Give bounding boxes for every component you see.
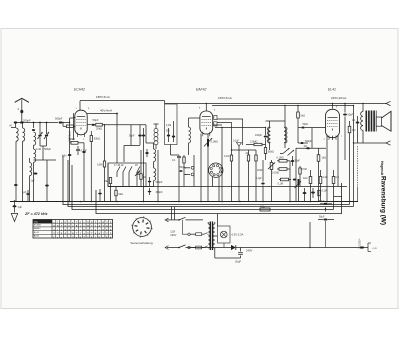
- label 0,1M h1: [277, 157, 284, 160]
- bus return 2: [68, 160, 354, 207]
- fuse bottom: [188, 246, 208, 249]
- label 50pF det: [303, 123, 309, 126]
- speaker frame: [375, 111, 377, 132]
- svg-text:1µF: 1µF: [18, 205, 23, 209]
- label 50pF: [93, 118, 99, 122]
- svg-text:1kΩ: 1kΩ: [303, 177, 308, 180]
- label pin digits ECH42: [76, 108, 91, 141]
- svg-text:EL41: EL41: [34, 232, 40, 234]
- svg-text:50pF: 50pF: [295, 160, 301, 163]
- resistor 0,5M: [103, 125, 105, 201]
- svg-text:1µF: 1µF: [22, 191, 27, 194]
- svg-text:AZ41: AZ41: [34, 235, 40, 238]
- resistor 0,2 EL41: [348, 121, 351, 205]
- resistor 5k det top: [297, 105, 300, 125]
- resistor 40ohm bus: [260, 205, 270, 211]
- svg-text:6,3V 0,3A: 6,3V 0,3A: [232, 233, 244, 237]
- svg-text:50pF: 50pF: [303, 123, 309, 126]
- label 500pF grid: [55, 117, 63, 121]
- label 50k det: [268, 151, 274, 154]
- capacitor in AVC box b: [172, 121, 175, 142]
- wire AVC down: [171, 145, 180, 156]
- resistor 0,5M det: [299, 166, 301, 187]
- svg-text:Serienschaltung: Serienschaltung: [130, 241, 152, 245]
- coil L2a: [34, 132, 36, 145]
- svg-text:1MΩ: 1MΩ: [257, 169, 262, 172]
- wire v146: [145, 125, 147, 143]
- switch contact 20: [137, 167, 140, 178]
- phono jack lower: [185, 173, 194, 176]
- speaker cone: [382, 111, 392, 131]
- label pin digits EAF42: [199, 108, 216, 112]
- svg-text:245V,20mA: 245V,20mA: [331, 96, 346, 100]
- wire grid link: [70, 113, 76, 140]
- coil L2b: [34, 149, 36, 162]
- capacitor 0,1uF tube left: [76, 146, 86, 155]
- choke connector: [310, 243, 378, 252]
- wire det corner B: [217, 123, 232, 145]
- label 40k: [104, 180, 109, 183]
- svg-text:40V,4mA: 40V,4mA: [100, 109, 112, 113]
- svg-text:EAF42: EAF42: [196, 88, 206, 92]
- svg-text:M: M: [10, 124, 12, 128]
- label 165V,5mA: [218, 96, 232, 100]
- capacitor in AVC box a: [167, 128, 170, 142]
- svg-text:ZF = 472 kHz: ZF = 472 kHz: [24, 212, 48, 216]
- label 110/220V: [170, 230, 176, 238]
- wire switch verticals: [123, 177, 137, 187]
- resistor 25k osc: [140, 150, 142, 187]
- output transformer core: [366, 111, 375, 132]
- wire L1a to bus: [15, 141, 17, 201]
- mains lead top: [165, 218, 180, 222]
- wire antenna down 2: [22, 123, 24, 129]
- IF1 winding: [154, 128, 158, 144]
- capacitor 50pF anode: [87, 124, 95, 126]
- resistor 1,2k right: [319, 170, 322, 201]
- resistor 0,1M det h2: [277, 168, 290, 171]
- label 2k: [143, 176, 146, 179]
- capacitor IF1 a: [138, 135, 141, 137]
- terminal M: [10, 123, 16, 129]
- svg-text:0,1µF: 0,1µF: [256, 177, 263, 180]
- label 50uF upper: [319, 200, 325, 203]
- wire det row: [231, 149, 256, 150]
- capacitor 0,1uF right: [303, 188, 315, 201]
- capacitor 50pF det: [298, 127, 312, 129]
- label 1k EL41: [322, 157, 327, 160]
- capacitor tone: [293, 179, 296, 181]
- wire HT top line2: [212, 105, 354, 107]
- wire ECH42 anode up: [79, 101, 81, 111]
- tube EAF42: [200, 111, 213, 136]
- label 5k osc: [119, 193, 124, 196]
- wire top row: [34, 122, 57, 124]
- wire det corner A: [217, 119, 243, 145]
- svg-text:0,1MΩ: 0,1MΩ: [272, 172, 279, 175]
- output transformer primary: [361, 103, 364, 143]
- band switch box: [108, 163, 146, 187]
- resistor grid stopper: [62, 122, 75, 128]
- label pin digits EL41: [324, 107, 344, 142]
- coil osc bottom: [154, 168, 156, 181]
- bus return 3: [72, 165, 342, 210]
- capacitor arrow lower: [325, 208, 327, 212]
- mains pole join: [182, 220, 187, 234]
- resistor 1k EL41: [317, 148, 320, 201]
- label 0,1M v: [278, 183, 283, 186]
- label 1,2k right: [323, 176, 328, 179]
- svg-text:50pF: 50pF: [348, 114, 354, 117]
- svg-text:2,5MΩ: 2,5MΩ: [250, 141, 258, 144]
- label ZF: [24, 212, 48, 216]
- IF2 coil right: [284, 121, 287, 148]
- resistor det c: [246, 150, 250, 201]
- coil osc top: [154, 149, 156, 162]
- label 30k: [94, 137, 100, 141]
- lamp box: [215, 214, 230, 248]
- resistor osc 40k: [109, 177, 111, 201]
- wire mid verticals: [194, 155, 208, 201]
- label 245V,20mA: [331, 96, 346, 100]
- label 4-46: [36, 148, 42, 151]
- antenna: [15, 98, 29, 122]
- wire L1b down: [22, 141, 24, 201]
- wire EAF42 anode up: [205, 104, 207, 112]
- wire EAF42 grid left: [189, 117, 201, 119]
- capacitor L2 top: [32, 129, 35, 131]
- diode contact 2: [288, 150, 295, 156]
- label 0,2 right: [336, 176, 340, 179]
- wire band link: [124, 125, 140, 162]
- label 50pF EL41: [348, 114, 354, 117]
- capacitor 1,5nF: [62, 154, 71, 158]
- label 5k top: [301, 115, 306, 118]
- capacitor 20uF: [238, 248, 243, 259]
- svg-text:ECH42: ECH42: [34, 224, 42, 226]
- label 300pF osc: [156, 191, 164, 194]
- svg-text:220V: 220V: [170, 233, 176, 237]
- voltage table: [33, 220, 113, 240]
- wire osc right drop: [157, 150, 159, 201]
- svg-text:100pF: 100pF: [255, 134, 263, 137]
- svg-text:20µF: 20µF: [235, 260, 242, 264]
- wire det bus drops: [290, 158, 296, 201]
- svg-text:240V: 240V: [246, 249, 252, 253]
- svg-text:0,1MΩ: 0,1MΩ: [211, 141, 219, 144]
- capacitor 0,1uF det left: [261, 160, 264, 201]
- svg-text:0,1: 0,1: [352, 119, 356, 122]
- brand text vertical: [380, 161, 384, 175]
- tone pot: [295, 179, 302, 201]
- svg-text:4-46: 4-46: [36, 148, 42, 151]
- wire HT to right: [172, 207, 311, 249]
- label 500pF osc: [156, 181, 164, 184]
- chassis bus: [10, 201, 358, 203]
- label 2,5M: [250, 141, 258, 144]
- wire HT top line: [165, 103, 387, 104]
- coil L3: [30, 158, 32, 201]
- capacitor 50pF det2: [291, 156, 294, 166]
- wire det mid drop: [297, 125, 299, 143]
- resistor det d: [255, 150, 257, 201]
- wire rect loop: [215, 248, 241, 259]
- box AVC: [165, 104, 178, 145]
- label 185V vertical: [68, 131, 71, 142]
- svg-text:50kΩ: 50kΩ: [268, 151, 274, 154]
- trimmer C3 4-46pF: [38, 123, 43, 147]
- svg-text:2M: 2M: [246, 153, 249, 155]
- label 0,1 speaker: [352, 119, 356, 122]
- label contacts: [114, 164, 138, 167]
- svg-text:30kΩ: 30kΩ: [94, 137, 100, 141]
- capacitor 0,1 speaker: [356, 116, 360, 143]
- resistor osc 5k: [115, 187, 117, 202]
- label ECH42: [74, 88, 85, 92]
- svg-text:165V,5mA: 165V,5mA: [218, 96, 232, 100]
- resistor 0,1M right: [318, 190, 320, 196]
- wire screen drop: [116, 114, 118, 164]
- wire osc bottom: [108, 186, 154, 188]
- label 0,1uF det left: [256, 177, 263, 180]
- label 0,1uF mid: [172, 159, 176, 162]
- capacitor 300pF osc: [148, 188, 152, 195]
- capacitor IF1 c: [145, 149, 148, 157]
- fuse top: [188, 233, 209, 236]
- label 500pF det: [305, 140, 313, 143]
- wire 185V line: [80, 100, 165, 102]
- wire AVC vertical: [164, 101, 166, 104]
- diode contact 1: [283, 148, 290, 154]
- svg-text:0,2: 0,2: [336, 176, 340, 179]
- heater line: [146, 186, 347, 188]
- switch contact 19: [129, 167, 132, 178]
- speaker magnet: [376, 117, 381, 126]
- capacitor 100pF IF2: [264, 127, 268, 145]
- wire speaker bottom: [354, 142, 387, 144]
- capacitor 0,1uF mid: [177, 155, 181, 201]
- IF2 top bar: [266, 105, 286, 121]
- mains switch blade: [179, 217, 203, 220]
- svg-text:50µF: 50µF: [319, 216, 325, 219]
- capacitor bus area b: [98, 189, 102, 201]
- trimmer C4 500pF: [44, 123, 49, 147]
- wire v108: [107, 163, 109, 187]
- transformer primary winding: [208, 222, 210, 248]
- coil L1b: [23, 128, 25, 141]
- svg-text:0,5M: 0,5M: [302, 169, 307, 171]
- resistor 1k right: [309, 170, 312, 201]
- svg-text:5kΩ: 5kΩ: [119, 193, 124, 196]
- svg-text:0,1M: 0,1M: [322, 190, 327, 193]
- potentiometer 0,1M EAF: [204, 134, 212, 155]
- padder trimmer: [135, 171, 140, 177]
- wire trimmer bottoms: [34, 146, 57, 160]
- label 240V: [246, 249, 252, 253]
- svg-text:0,1M: 0,1M: [224, 155, 229, 158]
- label 0,1uF a: [81, 150, 88, 153]
- svg-text:0,1: 0,1: [172, 159, 176, 162]
- ground: [11, 214, 17, 222]
- tube EL41: [326, 109, 340, 140]
- capacitor 1uF L3: [31, 173, 38, 183]
- label 20uF: [235, 260, 242, 264]
- EAF42 pin contacts: [214, 115, 217, 126]
- svg-text:20kΩ: 20kΩ: [96, 127, 102, 131]
- wire grid line mid: [215, 127, 266, 129]
- transformer core: [210, 222, 214, 251]
- svg-text:0,1µF: 0,1µF: [233, 141, 240, 143]
- IF1 winding wires: [154, 124, 159, 149]
- resistor mid 1: [183, 155, 185, 187]
- svg-text:ECH42: ECH42: [74, 88, 85, 92]
- wire grid feed down: [69, 118, 70, 201]
- label 40V,4mA: [100, 109, 112, 113]
- label 185V,5mA: [96, 95, 110, 99]
- resistor 0,1M det h1: [277, 160, 290, 163]
- terminal bottom right: [386, 141, 391, 145]
- wire osc coil link: [146, 143, 154, 187]
- wire EL41 anode up: [332, 103, 333, 109]
- capacitor 1uF ground: [13, 200, 17, 212]
- svg-text:Volt: Volt: [34, 220, 38, 223]
- bus return 4: [96, 183, 342, 214]
- node antenna junction: [14, 121, 34, 123]
- svg-text:200pF: 200pF: [23, 119, 31, 123]
- label EL41: [328, 88, 336, 92]
- coil osc grid: [189, 118, 191, 155]
- svg-text:500pF: 500pF: [156, 181, 164, 184]
- svg-text:0,5M: 0,5M: [97, 164, 102, 167]
- svg-text:6,3V: 6,3V: [373, 248, 378, 250]
- tube ECH42: [75, 110, 87, 137]
- svg-text:5kΩ: 5kΩ: [301, 115, 306, 118]
- svg-text:1kΩ: 1kΩ: [322, 157, 327, 160]
- label mains vertical: [360, 237, 362, 249]
- label 0,5M extra: [302, 169, 307, 171]
- rectifier diode: [215, 245, 310, 250]
- capacitor 50pF EL41: [343, 103, 347, 160]
- label 0,1M h2: [272, 172, 279, 175]
- svg-text:50pF: 50pF: [129, 135, 135, 138]
- label 20k: [96, 127, 102, 131]
- wire 40V line: [87, 113, 118, 115]
- bus return 1: [63, 155, 350, 205]
- IF1 feed verticals: [140, 125, 144, 201]
- svg-text:110/: 110/: [170, 230, 175, 234]
- volume pot: [268, 160, 275, 201]
- resistor 0,1M det v: [279, 178, 291, 181]
- wire eye down: [213, 177, 220, 201]
- wire L2 down: [33, 145, 35, 201]
- svg-text:50kΩ: 50kΩ: [69, 137, 75, 141]
- capacitor IF1 b: [142, 135, 145, 137]
- pilot lamp: [221, 231, 228, 238]
- wire speaker verticals: [353, 105, 358, 207]
- switch contact 17: [117, 167, 120, 178]
- resistor 30k cathode: [90, 131, 92, 201]
- terminal top right: [386, 101, 391, 105]
- label 0,5M: [97, 164, 102, 167]
- svg-text:0,1M: 0,1M: [278, 183, 283, 186]
- resistor 0,2 right: [332, 170, 335, 210]
- label 0,1M a: [224, 155, 229, 158]
- svg-text:Ravensburg (W): Ravensburg (W): [380, 176, 387, 225]
- svg-text:17 18 19: 17 18 19: [114, 164, 124, 167]
- svg-text:50pF: 50pF: [93, 118, 99, 122]
- svg-text:0,2: 0,2: [352, 129, 356, 132]
- magic eye socket: [209, 163, 223, 177]
- svg-text:1,2k: 1,2k: [323, 176, 328, 179]
- IF2 coil left: [268, 121, 271, 150]
- label Serienschaltung: [130, 241, 152, 245]
- wire diode feed: [280, 148, 296, 158]
- label 50pF det2: [295, 160, 301, 163]
- label AVC caps: [166, 125, 171, 133]
- model text vertical: [380, 176, 387, 225]
- label EAF42: [196, 88, 206, 92]
- mains lead bottom: [165, 245, 215, 250]
- label 0,2 EL41: [352, 129, 356, 132]
- label 200pF: [23, 119, 31, 123]
- capacitor antenna series: [18, 108, 24, 113]
- resistor 50k det: [264, 145, 266, 161]
- svg-text:EL41: EL41: [328, 88, 336, 92]
- svg-text:1µF: 1µF: [31, 180, 36, 183]
- coil L1a: [16, 128, 18, 141]
- wire det drop left: [221, 127, 222, 201]
- svg-text:Hagenuk: Hagenuk: [380, 161, 384, 175]
- label 500pF trimmer: [44, 148, 52, 151]
- svg-text:185V,5mA: 185V,5mA: [96, 95, 110, 99]
- svg-text:0,1MΩ: 0,1MΩ: [277, 157, 284, 160]
- capacitor 500pF osc: [148, 177, 152, 187]
- svg-text:0,1M: 0,1M: [166, 125, 171, 127]
- label pot 1M: [257, 169, 262, 172]
- electrolytic 50uF upper: [320, 203, 332, 205]
- grid coupling line: [296, 147, 326, 149]
- label 50uF lower: [319, 216, 325, 219]
- label 1uF: [18, 205, 23, 209]
- resistor 50k horizontal: [70, 141, 84, 201]
- capacitor funnel det: [233, 141, 242, 202]
- svg-text:500pF: 500pF: [44, 148, 52, 151]
- label 50pF mid: [180, 166, 186, 169]
- resistor 20k coupling: [95, 123, 146, 126]
- wire EL41 grid: [312, 128, 326, 149]
- label IF1 cap: [129, 135, 135, 138]
- resistor 2,5M det: [246, 143, 266, 145]
- electrolytic 50uF lower: [318, 219, 334, 248]
- label 6,3V 0,3A: [232, 233, 244, 237]
- svg-text:0,1µF: 0,1µF: [81, 150, 88, 153]
- label 0,1M right: [322, 190, 327, 193]
- svg-text:40Ω: 40Ω: [260, 205, 265, 208]
- label 0,1M pot: [211, 141, 219, 144]
- transformer secondary winding: [213, 222, 215, 248]
- resistor det a: [230, 144, 232, 201]
- phono jack upper: [185, 166, 194, 169]
- label 1k right: [303, 177, 308, 180]
- capacitor 47 lens: [45, 160, 49, 201]
- label 100pF IF2: [255, 134, 263, 137]
- svg-text:EAF42: EAF42: [34, 227, 41, 230]
- switch contact 18: [123, 167, 126, 178]
- capacitor bus area a: [22, 190, 30, 201]
- wire to L2: [33, 122, 35, 128]
- wire EL41 pins: [327, 135, 338, 202]
- label 10n extra: [304, 146, 309, 148]
